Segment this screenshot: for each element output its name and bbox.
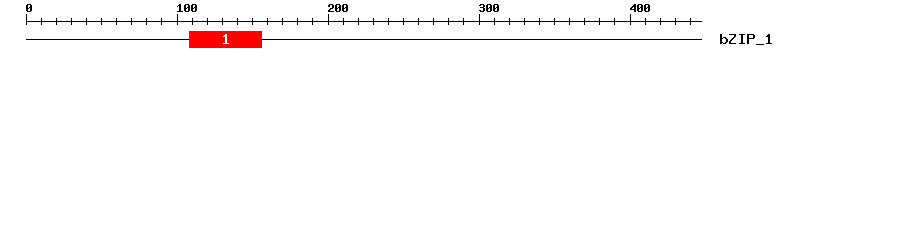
ruler minor tick 30	[71, 18, 72, 25]
sequence line	[26, 39, 702, 40]
ruler minor tick 360	[569, 18, 570, 25]
ruler minor tick 70	[131, 18, 132, 25]
ruler minor tick 60	[116, 18, 117, 25]
ruler minor tick 230	[373, 18, 374, 25]
ruler minor tick 190	[312, 18, 313, 25]
ruler minor tick 10	[41, 18, 42, 25]
ruler major tick 400	[630, 14, 631, 25]
ruler minor tick 410	[645, 18, 646, 25]
ruler label 200	[328, 4, 348, 12]
protein name label bZIP_1	[720, 34, 772, 45]
ruler minor tick 80	[146, 18, 147, 25]
ruler minor tick 90	[161, 18, 162, 25]
ruler major tick 200	[328, 14, 329, 25]
ruler label 300	[479, 4, 499, 12]
ruler label 400	[630, 4, 650, 12]
ruler minor tick 140	[237, 18, 238, 25]
ruler minor tick 370	[584, 18, 585, 25]
ruler minor tick 20	[56, 18, 57, 25]
ruler minor tick 320	[509, 18, 510, 25]
ruler minor tick 120	[207, 18, 208, 25]
ruler minor tick 310	[494, 18, 495, 25]
ruler minor tick 350	[554, 18, 555, 25]
ruler major tick 100	[177, 14, 178, 25]
ruler minor tick 50	[101, 18, 102, 25]
ruler minor tick 210	[343, 18, 344, 25]
domain number label 1	[223, 34, 229, 44]
ruler minor tick 380	[599, 18, 600, 25]
ruler label 100	[177, 4, 197, 12]
ruler minor tick 330	[524, 18, 525, 25]
ruler minor tick 110	[192, 18, 193, 25]
ruler minor tick 250	[403, 18, 404, 25]
ruler minor tick 440	[690, 18, 691, 25]
ruler minor tick 150	[252, 18, 253, 25]
ruler minor tick 170	[282, 18, 283, 25]
domain box 1 (residues 108-156)	[189, 31, 262, 48]
ruler minor tick 270	[433, 18, 434, 25]
ruler minor tick 280	[448, 18, 449, 25]
ruler minor tick 260	[418, 18, 419, 25]
ruler minor tick 430	[675, 18, 676, 25]
ruler label 0	[26, 4, 32, 12]
ruler major tick 300	[479, 14, 480, 25]
ruler minor tick 180	[297, 18, 298, 25]
ruler minor tick 390	[614, 18, 615, 25]
ruler minor tick 340	[539, 18, 540, 25]
ruler minor tick 290	[463, 18, 464, 25]
ruler minor tick 220	[358, 18, 359, 25]
ruler minor tick 40	[86, 18, 87, 25]
ruler minor tick 160	[267, 18, 268, 25]
ruler major tick 0	[26, 14, 27, 25]
background	[0, 0, 900, 58]
ruler minor tick 420	[660, 18, 661, 25]
ruler line	[26, 21, 702, 22]
ruler minor tick 240	[388, 18, 389, 25]
ruler minor tick 130	[222, 18, 223, 25]
